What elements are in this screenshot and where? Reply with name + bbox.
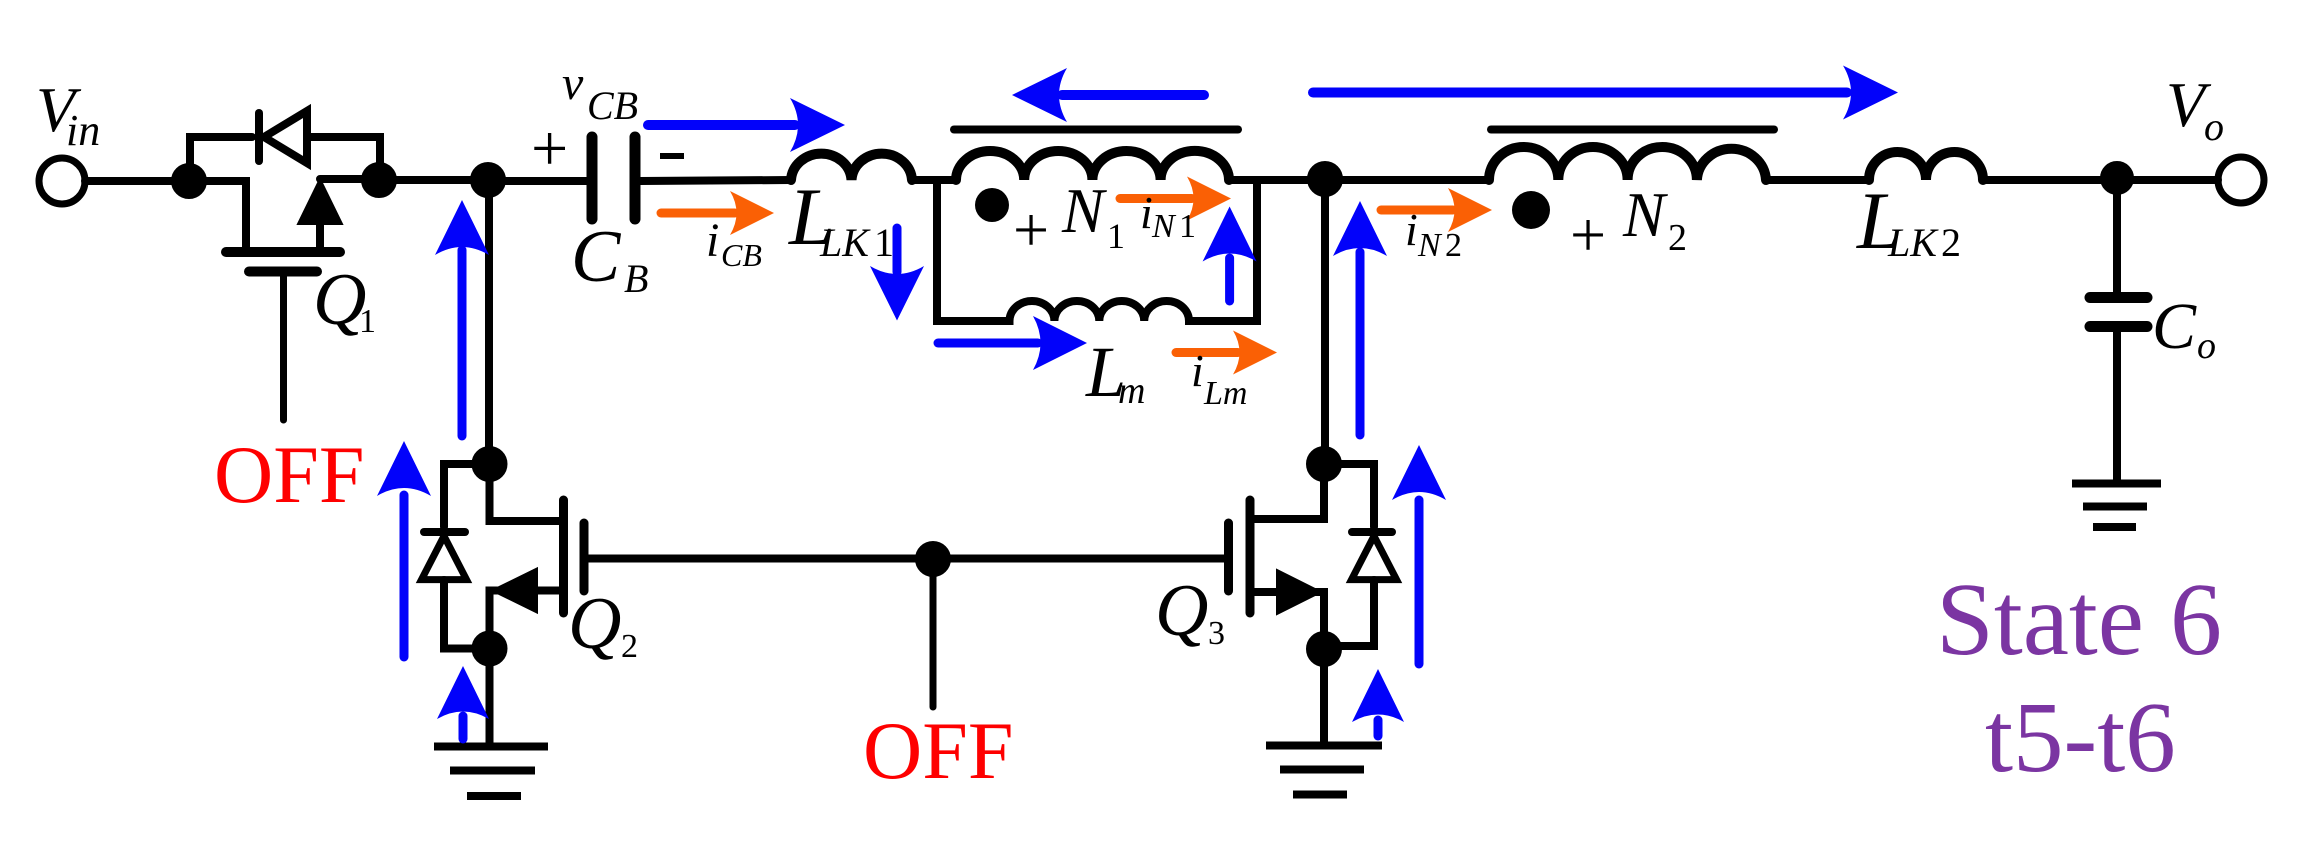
wire Q3 source to ground (1320, 649, 1328, 744)
svg-text:1: 1 (1107, 216, 1125, 256)
svg-text:N: N (1417, 227, 1443, 264)
wire node E to capacitor Co (2113, 180, 2121, 292)
transistor Q3 source lead (1250, 592, 1324, 649)
svg-text:C: C (571, 216, 622, 298)
svg-text:1: 1 (874, 220, 894, 265)
svg-text:OFF: OFF (863, 705, 1013, 796)
magnetizing branch box with inductor Lm (937, 183, 1257, 321)
svg-text:2: 2 (1445, 227, 1462, 264)
svg-text:N: N (1622, 180, 1668, 250)
terminal Vo circle (2218, 157, 2264, 203)
svg-text:N: N (1151, 208, 1177, 245)
wire LLK1 to node X (912, 176, 956, 184)
blue arrow up right of Q3 (1415, 500, 1424, 664)
svg-text:+: + (1570, 199, 1606, 270)
transistor Q1 drain lead (316, 210, 324, 252)
node A junction dot (175, 167, 203, 195)
gate wire Q2 to Q3 (584, 555, 1228, 563)
svg-text:o: o (2197, 325, 2216, 367)
blue arrow over N2 pointing right (1313, 88, 1847, 98)
svg-text:CB: CB (721, 237, 762, 273)
body diode D2 triangle (422, 536, 467, 580)
node F junction dot (Q2 drain) (476, 450, 504, 478)
node I junction dot (Q3 source) (1310, 635, 1338, 663)
svg-text:3: 3 (1208, 615, 1225, 652)
svg-text:t5-t6: t5-t6 (1985, 681, 2176, 793)
transistor Q2 source lead (490, 591, 564, 649)
orange current arrows (661, 177, 1492, 375)
svg-text:i: i (1140, 187, 1153, 238)
orange arrow iLm (1176, 348, 1238, 357)
transistor Q1 channel bar (226, 247, 340, 257)
wire N2 to inductor LLK2 (1766, 176, 1869, 184)
blue arrow over N1 pointing left (1062, 90, 1204, 100)
winding N1 (956, 151, 1229, 180)
terminal Vin circle (39, 158, 85, 204)
svg-text:in: in (66, 106, 100, 155)
orange arrow iN2 (1381, 206, 1453, 215)
svg-text:i: i (706, 214, 719, 267)
svg-text:v: v (562, 57, 584, 110)
node G junction dot (Q2 source) (476, 635, 504, 663)
svg-text:LK: LK (819, 220, 871, 265)
capacitor Co top plate (2090, 292, 2147, 303)
wire Q1 drain to node B (320, 175, 379, 183)
polarity dot N2 (1512, 191, 1550, 229)
node D junction dot (1311, 165, 1339, 193)
core bar over N1 (954, 126, 1238, 134)
blue arrow up right of node D (1356, 252, 1365, 435)
transistor Q2 channel bar (559, 500, 568, 613)
transistor Q2 source arrow (492, 569, 537, 613)
wire node B to node C (379, 176, 488, 184)
transistor Q3 source arrow (1277, 570, 1321, 614)
transistor Q3 gate bar (1224, 523, 1233, 591)
blue arrow up at Q2 ground (459, 716, 468, 739)
svg-text:B: B (624, 256, 648, 301)
svg-text:C: C (2152, 290, 2197, 363)
svg-text:1: 1 (359, 303, 376, 340)
svg-text:CB: CB (587, 83, 638, 128)
gate node stub down (930, 559, 937, 707)
blue arrow over CB pointing right (648, 120, 795, 130)
body diode D3 cathode bar (1352, 528, 1392, 536)
wire Co to ground (2113, 331, 2121, 483)
transistor Q3 drain lead (1250, 464, 1324, 519)
minus sign at CB (660, 153, 684, 159)
ground under Co (2072, 484, 2161, 528)
svg-text:+: + (1013, 194, 1049, 265)
wire node A riser to diode D1 (190, 137, 252, 181)
node E junction dot (2104, 165, 2130, 191)
blue arrow up left of node C (458, 250, 467, 436)
transistor Q1 substrate arrow (298, 179, 342, 224)
gate node junction dot (919, 545, 947, 573)
capacitor CB right plate (630, 137, 641, 219)
orange arrow iCB (661, 209, 735, 218)
orange arrow iN1 (1120, 194, 1192, 203)
body diode D2 cathode bar (424, 528, 465, 536)
svg-text:o: o (2204, 104, 2224, 149)
svg-text:i: i (1191, 345, 1204, 396)
transistor Q1 gate bar (249, 267, 317, 277)
svg-text:i: i (1405, 204, 1418, 255)
node B junction dot (365, 166, 393, 194)
wire N1 to node D (1229, 176, 1489, 184)
transistor Q3 channel bar (1246, 500, 1255, 613)
blue arrow up inside Lm box (1225, 258, 1234, 301)
diode D1 cathode bar (255, 113, 263, 161)
svg-text:1: 1 (1179, 208, 1196, 245)
svg-text:2: 2 (1668, 217, 1687, 259)
svg-text:Q: Q (1155, 570, 1208, 652)
ground under Q3 (1266, 746, 1382, 795)
blue current arrows (377, 66, 1898, 740)
svg-text:Lm: Lm (1203, 375, 1247, 412)
blue arrow up at Q3 ground (1374, 720, 1383, 736)
inductor LLK2 (1869, 152, 1983, 180)
wire Q2 source to ground (486, 649, 494, 747)
transistor Q2 gate bar (580, 523, 589, 591)
winding N2 (1489, 147, 1766, 180)
core bar over N2 (1491, 126, 1774, 134)
transistor Q2 drain lead (490, 464, 564, 521)
capacitor CB left plate (587, 137, 598, 219)
polarity dot N1 (975, 188, 1009, 222)
transistor Q1 gate lead (280, 276, 287, 420)
blue arrow right under Lm (938, 339, 1038, 348)
svg-text:m: m (1118, 370, 1145, 412)
svg-text:+: + (531, 112, 568, 185)
svg-text:LK: LK (1887, 220, 1939, 265)
wire diode D1 to node B (307, 137, 380, 178)
blue arrow up left of Q2 (400, 495, 409, 657)
body diode D2 branch wires (444, 464, 490, 527)
body diode D3 triangle (1352, 536, 1397, 580)
diode D1 triangle (264, 111, 307, 163)
wire Vin to node A (85, 177, 189, 185)
wire LLK2 to node E (1983, 176, 2218, 184)
wire node D down to Q3 drain node (1321, 179, 1329, 464)
blue arrow down at LLK1 output (893, 228, 902, 272)
node H junction dot (Q3 drain) (1310, 450, 1338, 478)
wire node C down to Q2 drain node (485, 180, 493, 464)
ground under Q2 (434, 747, 548, 797)
capacitor Co bottom plate (2090, 321, 2147, 332)
svg-text:2: 2 (1941, 220, 1961, 265)
svg-text:Q: Q (568, 583, 621, 665)
svg-text:N: N (1061, 176, 1107, 246)
wire CB to inductor LLK1 (640, 180, 791, 181)
inductor LLK1 (791, 154, 912, 180)
svg-text:2: 2 (621, 628, 638, 665)
svg-text:OFF: OFF (214, 429, 364, 520)
body diode D3 branch wires (1324, 464, 1374, 527)
node C junction dot (474, 166, 502, 194)
wire node C to capacitor CB (488, 177, 587, 185)
svg-text:State 6: State 6 (1936, 562, 2222, 677)
wire node A to Q1 source (189, 181, 246, 249)
